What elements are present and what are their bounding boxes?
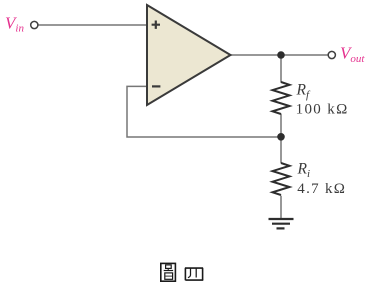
wire output op-amp to Vout terminal — [231, 54, 329, 56]
wire Ri bottom to ground — [280, 196, 282, 218]
resistor Ri — [273, 163, 290, 195]
wire node A down to Rf — [280, 55, 282, 83]
caption glyph Tu (figure) — [161, 263, 176, 281]
node B junction dot (feedback) — [277, 133, 285, 141]
node A junction dot (output) — [277, 51, 285, 59]
ground — [269, 219, 294, 228]
terminal Vin — [31, 21, 38, 28]
svg-text:4.7 kΩ: 4.7 kΩ — [297, 181, 346, 197]
wire input Vin to op-amp + — [38, 24, 147, 26]
op-amp U1 — [147, 5, 231, 105]
resistor Rf — [273, 82, 290, 114]
svg-text:100 kΩ: 100 kΩ — [296, 102, 349, 118]
wire Rf bottom through node B to Ri top — [280, 114, 282, 163]
terminal Vout — [328, 51, 335, 58]
wire feedback from op-amp - input down to node B — [127, 86, 281, 137]
caption glyph Si (four) — [185, 268, 203, 280]
caption figure four (CJK drawn as strokes) — [161, 263, 203, 281]
